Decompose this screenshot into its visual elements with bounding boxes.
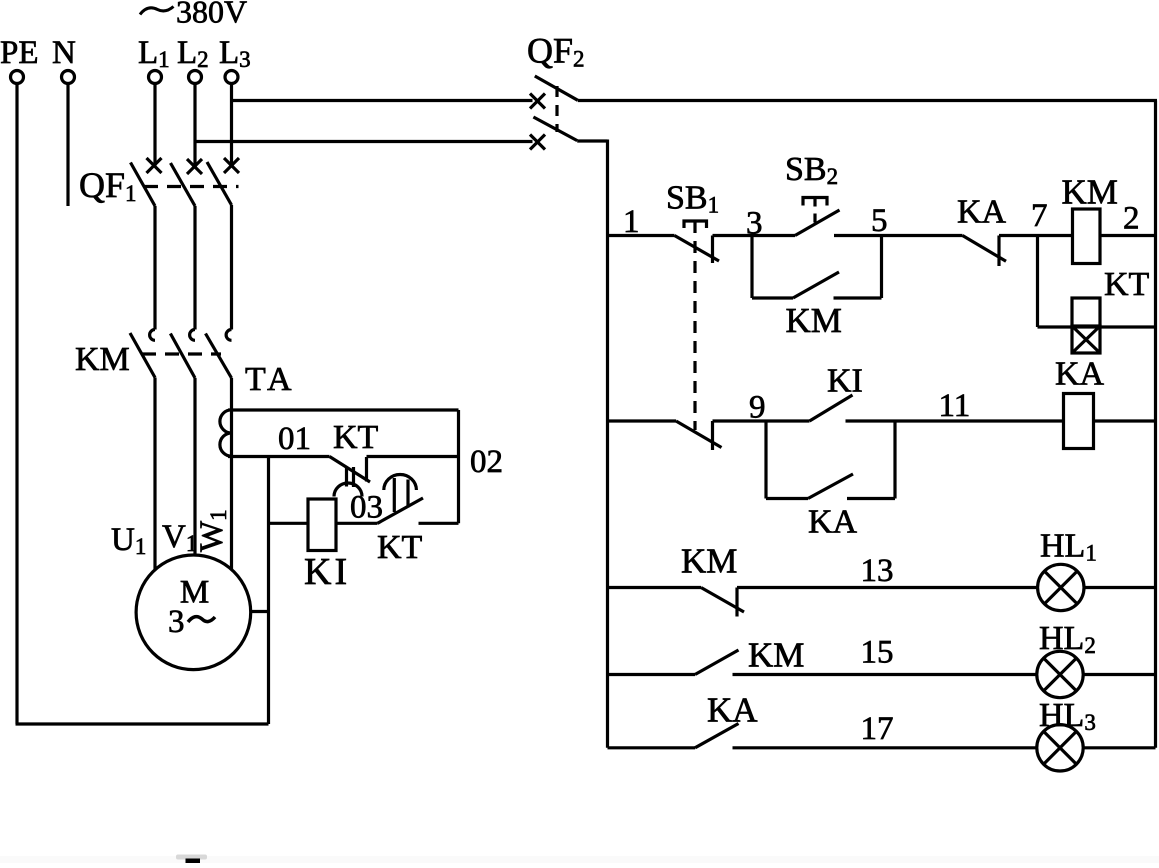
contactor KM linkage dashed [142, 352, 221, 355]
wire row2 left [608, 419, 677, 422]
contact KA aux NO lever [808, 474, 853, 499]
wire KT branch left [1038, 325, 1073, 328]
wire row3 node13 [737, 586, 1038, 589]
svg-text:17: 17 [861, 711, 894, 747]
wire row5 node17 [733, 746, 1038, 749]
timer coil KT crossed box [1072, 326, 1100, 353]
wire KT2 right [419, 522, 459, 525]
timer contact KT normally-closed delayed lever [330, 457, 371, 483]
svg-text:7: 7 [1031, 198, 1048, 234]
svg-text:KM: KM [786, 301, 842, 340]
pushbutton SB1 NC right bar row2 [711, 421, 714, 450]
pushbutton SB1 NC right bar row1 [711, 236, 714, 264]
contact KM NC lever row3 [701, 588, 744, 613]
svg-text:KA: KA [707, 691, 758, 730]
timer contact KT2 normally-open delayed lever [378, 498, 424, 523]
svg-text:11: 11 [939, 388, 971, 424]
wire KI to KT contact [336, 522, 378, 525]
svg-text:KT: KT [1104, 266, 1150, 303]
contactor KM pole1 lever [130, 333, 155, 378]
contactor KM pole1 fixed contact arc [150, 330, 155, 341]
wire QF1 pole2 down [193, 206, 196, 330]
wire row3 left [608, 586, 702, 589]
wire node9 branch down [764, 421, 767, 499]
wire row4 right [1083, 673, 1155, 676]
terminal PE [0, 35, 39, 84]
timer contact KT right terminal bar [365, 457, 368, 482]
breaker QF2 linkage dashed [555, 86, 558, 132]
svg-text:13: 13 [861, 553, 894, 589]
wire row2 node11 [846, 419, 1064, 422]
pushbutton SB2 cap [803, 198, 827, 206]
wire node 02 [367, 455, 459, 458]
breaker QF1 pole2 contact X [187, 159, 202, 174]
svg-text:PE: PE [0, 35, 39, 71]
svg-text:KA: KA [808, 504, 858, 541]
breaker QF2 pole2 contact X [530, 135, 545, 150]
terminal L3 [219, 35, 251, 84]
svg-text:9: 9 [749, 390, 766, 426]
svg-text:15: 15 [861, 635, 894, 671]
wire TA secondary top [228, 408, 459, 411]
contactor KM pole3 fixed contact arc [226, 330, 231, 341]
svg-text:N: N [52, 35, 76, 71]
terminal L2 [177, 35, 209, 84]
wire L2 vertical [193, 84, 196, 167]
contactor coil KM [1073, 209, 1101, 264]
lamp HL1 [1038, 564, 1084, 610]
svg-text:5: 5 [871, 203, 888, 239]
artifact bottom mark [186, 859, 201, 864]
wire right control bus [1154, 101, 1157, 748]
label ~380V [140, 0, 247, 30]
wire row1 node7 [999, 234, 1073, 237]
svg-text:KT: KT [333, 419, 379, 456]
breaker QF2 pole2 lever [533, 117, 577, 141]
wire row1 node5 [834, 234, 963, 237]
wire L3 branch to QF2 pole1 [232, 99, 533, 102]
svg-text:TA: TA [245, 361, 296, 398]
wire node3 branch down [750, 236, 753, 299]
breaker QF1 pole3 lever [207, 162, 232, 205]
svg-text:02: 02 [470, 444, 503, 480]
svg-text:KM: KM [681, 542, 737, 581]
contactor KM pole2 fixed contact arc [190, 330, 195, 341]
wire TA secondary right vertical [457, 410, 460, 523]
timer contact KT2 delay dome [384, 474, 417, 490]
wire row1 node1-3 [713, 234, 796, 237]
svg-text:KM: KM [75, 341, 130, 378]
wire node7 branch down [1036, 236, 1039, 328]
timer contact KT2 bars [394, 478, 408, 512]
wire PE bottom horizontal [16, 722, 269, 725]
breaker QF1 pole2 lever [171, 163, 196, 206]
motor label 3~ [168, 604, 215, 640]
svg-text:KT: KT [377, 529, 423, 566]
svg-text:KI: KI [827, 363, 863, 400]
wire row1 right [1100, 234, 1156, 237]
breaker QF1 pole3 contact X [224, 158, 239, 173]
contactor KM pole3 lever [206, 334, 232, 379]
contact KM NO lever row4 [695, 650, 739, 675]
lamp HL2 [1037, 651, 1083, 697]
wire motor right to PE branch [251, 610, 269, 613]
wire KM aux branch right [834, 296, 882, 299]
timer coil KT rectangle [1072, 298, 1100, 327]
wire QF1 pole1 down [153, 206, 156, 330]
wire PE vertical [15, 84, 18, 725]
wire row3 right [1084, 586, 1156, 589]
svg-text:3: 3 [168, 604, 185, 640]
svg-text:3: 3 [746, 206, 763, 242]
breaker QF1 linkage dashed [144, 185, 239, 188]
svg-text:03: 03 [350, 490, 383, 526]
pushbutton SB2 NO lever [795, 210, 840, 236]
wire L1 vertical [153, 84, 156, 166]
svg-text:KA: KA [957, 194, 1007, 231]
contactor KM pole2 lever [170, 334, 195, 379]
wire KM aux branch up [880, 236, 883, 299]
svg-text:01: 01 [278, 421, 311, 457]
wire KM aux branch left [752, 296, 793, 299]
artifact bottom band [0, 856, 1159, 863]
timer contact KT delay dome [334, 483, 362, 497]
wire KT branch right [1100, 325, 1156, 328]
contact KA NC right bar [997, 236, 1000, 267]
wire KA aux branch up [893, 421, 896, 499]
timer contact KT bars [347, 467, 354, 488]
lamp HL3 [1037, 725, 1083, 771]
wire row2 node9 [713, 419, 810, 422]
wire KM pole1 to motor U1 [153, 378, 156, 571]
relay coil KA [1064, 394, 1094, 449]
wire row1 left [608, 234, 675, 237]
svg-text:2: 2 [1123, 201, 1140, 237]
wire row2 right [1094, 419, 1156, 422]
breaker QF2 pole1 lever [535, 76, 578, 100]
wire KM pole2 to motor V1 [193, 378, 196, 556]
wire KM pole3 to motor W1 [230, 378, 233, 570]
svg-text:380V: 380V [176, 0, 247, 30]
svg-text:KM: KM [748, 636, 804, 675]
terminal N [52, 35, 76, 84]
wire row4 node15 [733, 673, 1038, 676]
terminal L1 [138, 35, 170, 84]
contact KM aux NO lever [793, 272, 839, 298]
contact KM NC right bar row3 [735, 588, 738, 617]
wire L2 branch to QF2 pole2 [195, 140, 533, 143]
wire N vertical [66, 84, 69, 207]
contact KI NO lever [810, 395, 853, 421]
pushbutton SB1 plunger dashed [693, 221, 696, 430]
wire QF2 pole2 right [577, 139, 607, 142]
pushbutton SB2 plunger dashed [813, 198, 816, 225]
pushbutton SB1 cap [684, 221, 707, 228]
wire KA aux branch left [766, 497, 808, 500]
contact KA NC lever [963, 236, 1007, 262]
breaker QF2 pole1 contact X [530, 94, 545, 109]
pushbutton SB1 NC lever row2 [676, 421, 722, 448]
breaker QF1 pole1 lever [131, 163, 156, 207]
svg-text:KI: KI [304, 551, 350, 593]
wire L3 vertical [230, 84, 233, 166]
svg-text:KM: KM [1062, 173, 1118, 212]
wire row5 right [1083, 746, 1155, 749]
wire QF1 pole3 down [230, 205, 233, 330]
wire row5 left [608, 746, 696, 749]
wire left control bus [606, 140, 609, 748]
artifact grey smudge [176, 855, 207, 860]
motor M circle [136, 555, 251, 670]
wire QF2 pole1 right to top bus [578, 99, 1157, 102]
svg-text:KA: KA [1055, 356, 1105, 393]
relay coil KI [308, 499, 336, 551]
wire to KI coil [269, 522, 309, 525]
wire KA aux branch right [847, 497, 895, 500]
current transformer TA winding bumps [220, 410, 232, 456]
wire node 01 [228, 455, 330, 458]
wire TA branch down [267, 457, 270, 725]
pushbutton SB1 NC lever row1 [675, 236, 720, 262]
breaker QF1 pole1 contact X [147, 158, 162, 173]
wire row4 left [608, 673, 696, 676]
contact KA NO lever row5 [695, 724, 739, 748]
